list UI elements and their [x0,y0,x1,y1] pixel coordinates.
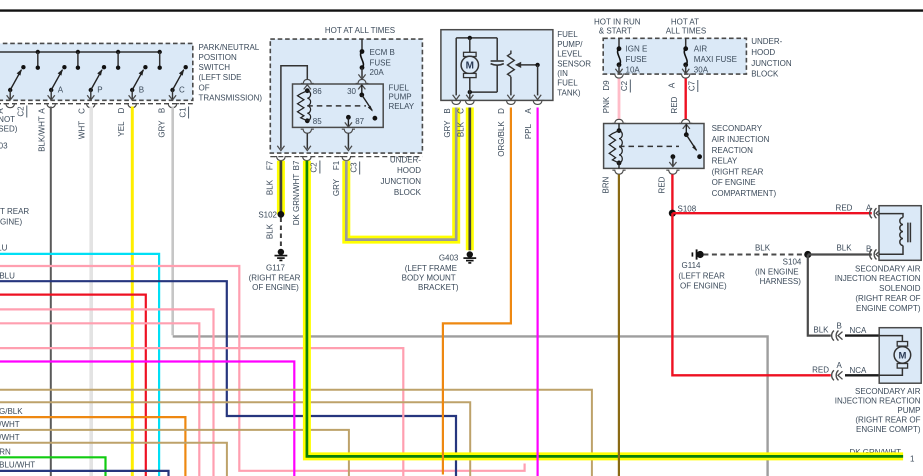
svg-text:S108: S108 [678,204,697,213]
wire RED from AIR MAXI fuse to relay [668,74,698,123]
fuel level sender variable resistor R1 [507,51,541,100]
svg-text:BLK: BLK [836,244,852,253]
svg-text:PNK: PNK [602,96,611,113]
svg-text:TRANSMISSION): TRANSMISSION) [199,93,263,102]
fuel pump motor M1 [461,38,478,92]
svg-text:(LEFT SIDE: (LEFT SIDE [199,73,242,82]
svg-text:ORG/BLK: ORG/BLK [0,407,23,416]
svg-text:20A: 20A [370,68,385,77]
svg-text:DK GRN/WHT: DK GRN/WHT [292,174,301,226]
wire PPL A from fuel level sender [524,108,538,476]
secondary air injection reaction relay label [712,124,777,198]
svg-text:M: M [898,350,906,361]
wire from relay pin 85 to junction block exit [301,129,314,150]
svg-text:B: B [837,321,842,330]
svg-text:TAN/WHT: TAN/WHT [0,420,20,429]
park/neutral switch label [199,43,263,103]
secondary air injection reaction solenoid box [879,206,921,261]
wire BLK from S104 down to pump pin B [808,255,867,341]
svg-text:SENSOR: SENSOR [557,59,591,68]
svg-text:BRN: BRN [602,176,611,193]
left cut ground note (right rear of engine) [0,207,29,227]
wire GRY F1 highlighted to fuel pump [332,108,456,240]
svg-text:DK BLU/WHT: DK BLU/WHT [0,460,35,469]
svg-text:C3: C3 [349,162,358,173]
svg-text:RELAY: RELAY [712,157,738,166]
svg-text:D9: D9 [602,80,611,91]
svg-text:(IN: (IN [557,69,568,78]
svg-text:A: A [0,108,5,114]
svg-text:IGN E: IGN E [626,44,648,53]
black lead into pump pin B [845,334,879,336]
svg-text:(NOT: (NOT [0,115,15,124]
svg-text:FUSE: FUSE [370,58,391,67]
svg-text:OF: OF [199,83,210,92]
svg-text:C: C [78,108,87,114]
svg-text:BRACKET): BRACKET) [418,283,459,292]
svg-text:SWITCH: SWITCH [199,63,231,72]
secondary air injection reaction pump box [879,328,921,384]
splice S108 [669,204,697,216]
svg-text:NCA: NCA [850,326,868,335]
wire DK BLU/WHT [0,460,168,476]
svg-text:G114: G114 [682,261,702,270]
park/neutral switch pole A [48,65,67,100]
underhood junction block box (fuses) [603,38,746,74]
svg-text:GRN: GRN [0,448,11,457]
wire ORG/BLK left [0,407,185,476]
svg-text:UNDER-: UNDER- [390,155,421,164]
wire BRN from sair relay [602,170,626,476]
park/neutral switch pole B [129,65,148,100]
svg-text:RIGHT REAR: RIGHT REAR [0,207,29,216]
svg-text:TAN/WHT: TAN/WHT [0,433,20,442]
svg-text:C: C [456,108,465,114]
svg-text:G103: G103 [0,142,8,151]
svg-text:C2: C2 [17,106,26,117]
svg-text:C2: C2 [620,80,629,91]
svg-text:BLK/WHT: BLK/WHT [37,116,46,152]
svg-text:A: A [837,361,843,370]
svg-text:A: A [58,86,64,95]
ground G117 [249,249,301,292]
fuse AIR MAXI 30A [682,38,737,74]
svg-text:WHT: WHT [78,121,87,139]
wire PNK 4 [0,348,403,476]
wire A not used note [0,115,18,151]
wire RED from sair relay to S108 [658,170,680,213]
solenoid coil L1 [879,214,910,255]
svg-text:SOLENOID: SOLENOID [879,284,921,293]
svg-text:JUNCTION: JUNCTION [751,59,792,68]
svg-text:BLOCK: BLOCK [394,188,422,197]
wire DK GRN/WHT B7 highlighted [292,160,915,463]
sair relay coil [609,124,622,169]
connector C1 label [178,107,188,119]
svg-text:RED: RED [836,203,853,212]
svg-text:F1: F1 [332,160,341,170]
fuel pump level sensor label [557,30,591,97]
fuel pump relay switch pins 30-87 [345,85,378,127]
svg-text:GRY: GRY [158,120,167,138]
svg-text:BLK: BLK [266,223,275,239]
svg-text:(RIGHT REAR OF: (RIGHT REAR OF [855,416,920,425]
svg-text:30: 30 [347,87,356,96]
wire GRY B highlighted from fuel pump [443,108,452,137]
svg-text:OF ENGINE): OF ENGINE) [252,283,299,292]
fuel pump relay coil pins 86-85 [298,85,323,126]
svg-text:FUEL: FUEL [389,84,410,93]
wire LT BLU [0,244,159,476]
svg-text:AIR: AIR [694,44,708,53]
svg-text:OF ENGINE: OF ENGINE [712,178,756,187]
svg-text:PUMP/: PUMP/ [557,40,583,49]
svg-text:87: 87 [355,117,364,126]
svg-text:YEL: YEL [117,121,126,137]
fuel pump internal wiring [453,36,498,100]
wire from relay pin 86 to junction block exit [277,66,313,151]
svg-text:30A: 30A [694,65,709,74]
wire BLK dashed from G114 to S104 [703,244,807,255]
svg-text:PUMP: PUMP [389,93,412,102]
park/neutral position switch box [0,43,193,100]
wire PNK lower-door [0,266,525,471]
svg-text:BLK: BLK [755,244,771,253]
svg-text:RELAY: RELAY [389,102,415,111]
svg-text:86: 86 [313,87,322,96]
svg-text:SECONDARY: SECONDARY [712,124,763,133]
underhood junction block label right [751,37,792,79]
svg-text:MAXI FUSE: MAXI FUSE [694,55,737,64]
fuse IGN E 10A [615,38,647,74]
svg-text:S102: S102 [258,210,277,219]
wire BLK from S104 to solenoid pin B [808,244,881,260]
svg-text:GRY: GRY [443,120,452,138]
wire TAN 2 [0,402,470,476]
svg-text:HOOD: HOOD [397,166,421,175]
underhood junction block label [381,155,422,197]
fuel pump relay actuating dashed link [307,105,366,107]
wire from relay pin 87 to junction block exit [342,129,355,150]
svg-text:(LEFT REAR: (LEFT REAR [678,272,725,281]
svg-text:RED: RED [812,366,829,375]
svg-text:NCA: NCA [850,366,868,375]
fuel pump capacitor C1 [491,38,504,92]
svg-text:G403: G403 [439,254,459,263]
sair relay switch [669,124,702,166]
svg-text:FUEL: FUEL [557,79,578,88]
wire BLK from S102 to G117 [266,218,281,249]
wire DK BLU [0,271,456,476]
svg-text:B: B [158,108,167,113]
svg-text:SECONDARY AIR: SECONDARY AIR [855,264,921,273]
svg-text:RED: RED [658,176,667,193]
svg-text:ENGINE COMPT): ENGINE COMPT) [856,304,921,313]
svg-text:HOOD: HOOD [751,48,775,57]
svg-text:10A: 10A [626,65,641,74]
svg-text:ECM B: ECM B [370,48,395,57]
wire TAN/WHT 1 [0,420,349,476]
wire PNK 2 [0,309,214,476]
svg-text:POSITION: POSITION [199,53,237,62]
wire BLK/WHT from park/neutral pin A [37,107,50,476]
secondary air injection reaction relay box [604,124,704,169]
svg-text:C7: C7 [688,80,697,91]
top border line [0,9,923,11]
svg-text:S104: S104 [783,258,802,267]
hot in run and start label [594,18,641,36]
svg-text:(RIGHT REAR: (RIGHT REAR [249,273,301,282]
svg-text:PPL: PPL [524,123,533,139]
svg-text:85: 85 [313,117,322,126]
wire TAN/WHT 2 [0,433,227,476]
wire ORG/BLK D from fuel level sender [443,108,511,475]
svg-text:1: 1 [910,454,915,463]
svg-text:INJECTION REACTION: INJECTION REACTION [835,396,921,405]
svg-text:REACTION: REACTION [712,146,754,155]
svg-text:HOT IN RUN: HOT IN RUN [594,18,641,27]
black lead into pump pin A [845,374,879,376]
svg-text:D: D [117,107,126,113]
svg-text:LT BLU: LT BLU [0,244,8,253]
svg-text:A: A [524,108,533,114]
fuel pump level sensor box [441,30,553,101]
svg-text:(LEFT FRAME: (LEFT FRAME [405,264,457,273]
svg-text:HARNESS): HARNESS) [760,277,802,286]
underhood junction block box (fuel pump relay) [270,39,422,153]
svg-text:GRY: GRY [332,178,341,196]
svg-text:B: B [443,108,452,113]
wire PPL left [0,362,294,476]
wire BLK F7 highlighted [266,160,281,214]
svg-text:FUEL: FUEL [557,30,578,39]
svg-text:DK BLU: DK BLU [0,271,15,280]
svg-text:M: M [466,61,474,72]
wire YEL from park/neutral pin D [117,107,133,476]
pump motor M2 [879,336,911,376]
secondary air injection reaction pump label [835,387,921,434]
svg-text:& START: & START [599,27,632,36]
svg-text:COMPARTMENT): COMPARTMENT) [712,189,777,198]
svg-text:USED): USED) [0,125,18,134]
svg-text:ORG/BLK: ORG/BLK [497,121,506,157]
svg-text:F7: F7 [266,160,275,170]
svg-text:PARK/NEUTRAL: PARK/NEUTRAL [199,43,260,52]
wire GRY from park/neutral pin B [158,107,768,476]
wire RED from S108 down to pump pin A [672,213,867,380]
splice S104 [755,251,811,286]
svg-text:HOT AT: HOT AT [671,18,699,27]
junction block bottom connector face [270,157,422,161]
wire RED from S108 to solenoid pin A [672,203,880,218]
splice S102 [258,210,284,219]
svg-text:PUMP: PUMP [897,406,920,415]
svg-text:ENGINE COMPT): ENGINE COMPT) [856,425,921,434]
svg-text:TANK): TANK) [557,88,581,97]
svg-text:BODY MOUNT: BODY MOUNT [402,274,456,283]
wire TAN 1 [0,390,592,476]
park/neutral connector face [0,104,193,108]
fuel pump box connector face [449,100,544,104]
park/neutral switch pole S1 [7,65,26,100]
svg-text:(RIGHT REAR: (RIGHT REAR [712,167,764,176]
svg-text:BLK: BLK [266,179,275,195]
svg-text:BLK: BLK [813,326,829,335]
svg-text:ALL TIMES: ALL TIMES [666,27,706,36]
wire BLK C highlighted from fuel pump to G403 [456,108,469,251]
svg-text:JUNCTION: JUNCTION [381,177,422,186]
svg-text:(RIGHT REAR OF: (RIGHT REAR OF [855,294,920,303]
svg-text:SECONDARY AIR: SECONDARY AIR [855,387,921,396]
svg-text:A: A [668,82,677,88]
secondary air injection reaction solenoid label [835,264,921,313]
svg-text:C1: C1 [178,107,187,118]
wire RED left [0,295,146,476]
svg-text:B: B [139,86,144,95]
svg-text:C: C [179,86,185,95]
svg-text:LEVEL: LEVEL [557,50,582,59]
svg-text:C2: C2 [310,162,319,173]
ground G403 [402,251,477,292]
sair relay actuating dashed link [619,145,679,147]
svg-text:BLOCK: BLOCK [751,70,779,79]
park/neutral switch pole C [169,65,188,100]
wire GRN [0,448,106,476]
svg-text:INJECTION REACTION: INJECTION REACTION [835,274,921,283]
fuse ECM B 20A [356,39,395,83]
svg-text:G117: G117 [266,264,286,273]
svg-text:P: P [97,86,102,95]
fuel pump relay label [389,84,415,111]
svg-text:OF ENGINE): OF ENGINE) [0,218,23,227]
svg-text:AIR INJECTION: AIR INJECTION [712,135,770,144]
park/neutral switch bus wire [0,50,162,70]
svg-text:D: D [497,108,506,114]
svg-text:RED: RED [670,96,679,113]
wire WHT from park/neutral pin C [78,107,92,476]
hot at all times label right [666,18,706,36]
svg-text:B7: B7 [292,160,301,170]
svg-text:BLK: BLK [456,121,465,137]
wire PNK 3 [0,323,199,476]
svg-text:HOT AT ALL TIMES: HOT AT ALL TIMES [325,26,395,35]
svg-text:FUSE: FUSE [626,55,647,64]
svg-text:A: A [37,108,46,114]
svg-text:(IN ENGINE: (IN ENGINE [755,268,799,277]
svg-text:OF ENGINE): OF ENGINE) [680,281,727,290]
fuel pump relay box [293,84,384,127]
svg-text:UNDER-: UNDER- [751,37,782,46]
wire PNK from IGN E fuse to relay [602,74,630,123]
ground G114 [678,249,727,290]
park/neutral switch pole P [87,65,106,100]
connector C2 label [0,106,27,118]
